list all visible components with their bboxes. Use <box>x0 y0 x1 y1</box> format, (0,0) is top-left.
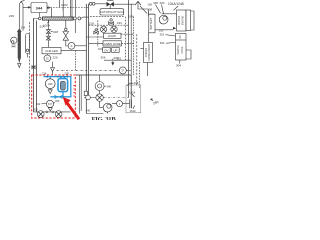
chiller box <box>42 47 61 53</box>
svg-text:AUTOPILOT ECU: AUTOPILOT ECU <box>100 10 124 14</box>
fan node a <box>46 111 48 113</box>
power conversion box <box>144 43 153 63</box>
svg-text:CONVERSION: CONVERSION <box>148 44 151 61</box>
svg-text:UP: UP <box>113 48 117 52</box>
svg-text:104A/104B: 104A/104B <box>168 2 184 6</box>
svg-text:CHILLER: CHILLER <box>45 49 59 53</box>
svg-text:304: 304 <box>176 64 181 68</box>
check valve triangle <box>51 68 55 72</box>
box DV <box>103 47 111 52</box>
condenser 1004 hatched bar <box>43 17 74 20</box>
wire leader 260 <box>151 99 153 101</box>
svg-text:108: 108 <box>147 7 152 11</box>
svg-text:1012: 1012 <box>130 109 137 113</box>
fork 1000 <box>135 1 148 14</box>
wire chiller right <box>61 50 86 52</box>
wire bottom pipes <box>84 98 103 114</box>
wire to valve 1006 <box>95 3 106 5</box>
wire dash y16.6 <box>90 16 124 18</box>
fan motor 1 <box>37 111 44 118</box>
red dashed enclosure <box>32 75 76 118</box>
wire dashed x139.3 <box>138 62 140 88</box>
wire 340 funnel <box>49 89 51 90</box>
pump 234 left <box>11 37 17 43</box>
svg-text:352: 352 <box>160 33 165 37</box>
wire vertical top center x75.6 <box>75 0 77 17</box>
svg-text:HEATER: HEATER <box>177 45 180 55</box>
wire right rail <box>191 11 195 30</box>
accumulator capsule <box>26 34 30 54</box>
wire 4way to pump <box>100 101 104 107</box>
valve small left of evap <box>94 31 99 34</box>
pipe left dashed x29.7 <box>29 22 31 111</box>
svg-text:228: 228 <box>65 72 70 76</box>
wire h y43.5 <box>89 43 103 45</box>
svg-text:354: 354 <box>160 41 165 45</box>
wire p7 right <box>126 69 131 71</box>
wire dash cabin right <box>122 42 134 44</box>
svg-text:214: 214 <box>42 72 47 76</box>
node right of box 344 <box>48 7 50 9</box>
canister inner <box>60 81 65 90</box>
pipe vertical x81.2 <box>80 75 82 111</box>
wire condenser to right pipes <box>81 17 89 18</box>
wire Y top-left <box>19 1 23 30</box>
wire dash vertical x75.6 <box>75 51 77 71</box>
blower fan B <box>111 26 117 32</box>
wire leader 1012 <box>133 106 135 109</box>
wire power conv bottom <box>147 63 149 77</box>
pipe left vertical x33.5 <box>33 19 35 113</box>
wire vertical x136.8 <box>136 34 138 86</box>
wire vertical x128.6 <box>128 0 130 98</box>
hourglass top circle <box>65 28 68 31</box>
valve 1006 butterfly <box>107 2 114 7</box>
wire dash control y7.5 <box>53 7 88 9</box>
wire capsule stem <box>27 54 29 58</box>
svg-text:CABIN ZONE: CABIN ZONE <box>104 42 121 46</box>
blue fitting b <box>64 76 68 78</box>
node condenser left <box>39 17 42 20</box>
pipe vertical x86.3 <box>85 4 87 114</box>
wire pump top to motor <box>162 13 177 15</box>
box UP <box>112 47 120 52</box>
capsule inner circle <box>26 49 28 51</box>
wire from Y to box 344 <box>21 0 31 7</box>
fan node b <box>52 111 54 113</box>
svg-text:ENGINE: ENGINE <box>182 15 185 25</box>
autopilot ecu box <box>100 9 124 15</box>
wire leader 304 <box>179 60 182 63</box>
wire vertical top center x59.5 <box>59 0 61 8</box>
wire h y37 <box>86 36 103 38</box>
node condenser right b <box>78 17 81 20</box>
wire 4way right dash <box>103 97 128 99</box>
sensor circle 1 <box>117 101 123 107</box>
blue flow arrow <box>45 75 48 77</box>
blue pipe loop <box>44 77 71 97</box>
valve 226 <box>46 36 50 40</box>
svg-text:FIG. 31B: FIG. 31B <box>91 116 116 120</box>
motor box <box>177 10 187 31</box>
wire vertical top center x72 <box>71 0 73 17</box>
wire leader 1004 <box>48 21 50 24</box>
wire leader 342 <box>42 103 47 105</box>
wire chiller to sensor <box>46 54 48 55</box>
svg-text:240: 240 <box>86 109 91 113</box>
wire fan row <box>34 111 71 113</box>
wire long dash y70.6 <box>57 70 120 72</box>
valve on left pipe <box>32 66 35 69</box>
wire dashed case right x125.5 <box>125 17 127 61</box>
oil heater box <box>176 34 187 61</box>
wire leader 300 <box>53 102 55 105</box>
svg-text:BATTERY: BATTERY <box>149 17 153 29</box>
battery box <box>149 14 155 33</box>
svg-text:318: 318 <box>53 30 58 34</box>
svg-text:EVAP: EVAP <box>108 34 116 38</box>
compressor circle 348 <box>95 82 104 91</box>
svg-text:302: 302 <box>34 108 39 112</box>
wire box344 bottom <box>38 13 40 17</box>
valve 318 <box>46 30 50 34</box>
wire leaders 330 340 <box>156 5 164 14</box>
wire box344 to condenser <box>47 8 52 17</box>
valve on pipe <box>84 91 87 95</box>
funnel below 340 <box>48 90 52 94</box>
wire power conv left stub <box>140 48 143 50</box>
label 260 <box>153 100 160 106</box>
fan motor 2 <box>55 111 62 118</box>
pump circle F <box>68 42 75 49</box>
expansion hourglass valve <box>63 32 69 41</box>
wire y75 right of red box <box>76 74 131 76</box>
tank outlet funnel <box>18 63 21 67</box>
wire dashed x97.8 <box>97 21 99 48</box>
box 344 <box>31 3 47 13</box>
wire F to pipes <box>75 45 86 47</box>
svg-text:DV: DV <box>104 48 108 52</box>
pump bottom center <box>103 103 112 112</box>
node circles above autopilot <box>89 2 92 5</box>
wire vertical top center x63 <box>62 0 64 17</box>
pipe vertical x79.3 <box>78 75 80 114</box>
wire valve to fans <box>110 25 112 27</box>
pipe vertical x88.6 <box>88 4 90 98</box>
wire bottom edge y60.2 <box>104 59 131 61</box>
node condenser right a <box>73 17 76 20</box>
svg-text:CORE: CORE <box>181 46 184 53</box>
blue fitting a <box>57 76 61 78</box>
pump 330 circle <box>159 15 168 24</box>
svg-text:238: 238 <box>21 26 26 30</box>
node fitting left of box 344 <box>28 7 30 9</box>
svg-text:347: 347 <box>48 103 53 106</box>
svg-text:1002: 1002 <box>61 3 68 7</box>
wire dash y25.2 <box>89 24 129 26</box>
svg-text:333: 333 <box>117 21 122 25</box>
four way valve <box>96 94 103 101</box>
wire 348 column <box>99 75 101 94</box>
wire dv left <box>98 48 103 50</box>
wire dash evap right <box>121 33 134 35</box>
wire pump bottom <box>107 112 109 114</box>
svg-text:344: 344 <box>36 5 43 10</box>
funnel below 347 <box>48 108 52 111</box>
svg-text:330: 330 <box>153 1 158 5</box>
sensor circle 347 <box>46 100 53 107</box>
heater bracket <box>186 50 191 59</box>
wire leader 352 <box>166 35 176 44</box>
valve 333 txv <box>109 22 114 25</box>
svg-text:348: 348 <box>107 85 112 89</box>
wire leader 104 <box>174 6 179 10</box>
node circle small <box>86 95 91 100</box>
red arrow <box>63 97 79 119</box>
wire hourglass column <box>66 20 76 46</box>
wire battery to motor with arrow <box>155 29 173 31</box>
wire valve column <box>47 20 49 47</box>
wire leader 238 <box>127 83 133 85</box>
svg-text:340: 340 <box>48 82 53 86</box>
motor bracket <box>186 10 191 31</box>
wire pump to circle1 <box>112 103 129 105</box>
wire sensor to check valve <box>52 62 54 75</box>
wire vertical x131.2 <box>130 4 132 75</box>
down arrow <box>112 59 114 63</box>
wire valve right to fork <box>114 3 135 5</box>
wire pump arrows <box>12 45 16 47</box>
sensor circle 340 <box>45 79 55 89</box>
wire leader 318 <box>51 31 53 33</box>
wire dash vertical x133.6 <box>133 17 135 75</box>
svg-text:OIL: OIL <box>179 34 182 39</box>
red border inner ticks <box>73 86 75 97</box>
pipe left vertical x36.5 <box>36 21 38 112</box>
svg-text:F: F <box>71 44 73 48</box>
svg-text:340: 340 <box>160 1 165 5</box>
svg-text:306: 306 <box>101 55 106 59</box>
wire vertical top center x70.6 <box>70 0 72 17</box>
plug connector <box>130 99 132 108</box>
svg-text:220: 220 <box>53 56 58 60</box>
wire condenser left elbow <box>34 19 39 21</box>
blue valve bottom <box>55 95 63 99</box>
svg-text:100: 100 <box>147 2 152 6</box>
svg-text:300: 300 <box>55 99 60 103</box>
svg-text:1014: 1014 <box>129 90 136 94</box>
cabin zone box <box>103 41 122 46</box>
module box 238 <box>126 85 141 113</box>
evap box <box>104 33 122 38</box>
wire leader 1002 <box>62 7 65 10</box>
blower fan A <box>100 26 106 32</box>
svg-text:236: 236 <box>9 14 14 18</box>
svg-text:238: 238 <box>134 81 139 85</box>
wire leader 1014 <box>132 94 135 97</box>
sensor circle p7 <box>119 67 126 74</box>
sensor circle 31 <box>44 55 51 62</box>
accumulator canister blue <box>58 79 68 92</box>
svg-text:224: 224 <box>40 24 45 28</box>
desiccant tank dark <box>17 28 22 63</box>
svg-text:342: 342 <box>36 102 41 106</box>
wire leader 1000 <box>140 6 147 14</box>
